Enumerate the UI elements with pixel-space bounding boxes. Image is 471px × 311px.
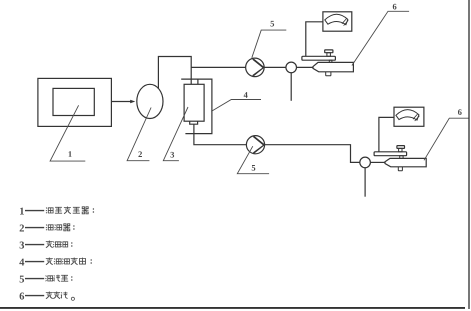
legend text line 6: guang du ji . — [46, 292, 75, 301]
bottom photometer tube 6 — [385, 158, 426, 166]
wire junction to photometer tube — [297, 66, 314, 68]
label digit 6 bottom — [458, 109, 462, 115]
legend dash 5 — [25, 278, 44, 280]
bottom meter box — [394, 107, 424, 126]
legend text line 2: huan chong qi ; — [46, 224, 75, 231]
legend dash 4 — [25, 261, 44, 263]
legend dash 6 — [25, 295, 44, 297]
label digit 6 top — [393, 4, 397, 10]
legend dash 3 — [25, 244, 44, 246]
legend — [19, 208, 24, 300]
buffer ellipse 2 — [137, 84, 163, 118]
bottom knob stem — [399, 148, 402, 151]
top tube bottom tab — [326, 72, 331, 76]
label digit 1 — [69, 151, 72, 157]
bottom connector stub platform-tube — [400, 156, 403, 159]
top knob stem — [327, 53, 331, 57]
wire bottom junction to tube — [370, 161, 385, 163]
bottom meter wire to platform — [379, 117, 394, 151]
bottom meter needle hatches — [413, 114, 419, 121]
label 3 pointer and underline — [163, 107, 188, 161]
filter 3 body — [184, 84, 204, 121]
legend text line 3: guo lv jian ; — [46, 241, 73, 248]
legend text line 5: chou qi beng ; — [45, 275, 72, 282]
arrow line from generator to buffer — [111, 101, 131, 103]
label 1 pointer and underline — [50, 105, 85, 161]
label digit 2 — [138, 151, 142, 157]
wire top pump to junction — [264, 66, 286, 68]
bottom junction stub down — [364, 168, 366, 197]
legend dash 2 — [25, 227, 44, 229]
label 5 top pointer and underline — [252, 30, 286, 58]
label 6 bottom pointer and underline — [424, 118, 469, 160]
legend line 5 digit — [20, 276, 24, 283]
wire from buffer top to filter top — [158, 57, 191, 89]
legend text line 1: you wu fa sheng qi ; — [46, 207, 94, 214]
bottom rule — [0, 307, 465, 309]
bottom meter gauge band — [396, 110, 419, 120]
top meter box — [323, 12, 352, 31]
label 6 top pointer and underline — [352, 11, 409, 65]
bottom pump triangle chords — [253, 136, 264, 153]
wire from filter bottom to bottom pump — [194, 124, 247, 145]
oil mist generator box 1 outer rect — [38, 78, 112, 126]
legend line 3 digit — [20, 242, 24, 249]
top junction circle — [286, 62, 297, 73]
label 5 bottom pointer and underline — [237, 146, 269, 174]
top platform bar — [302, 56, 336, 60]
label 2 pointer and underline — [127, 108, 151, 161]
label digit 4 — [244, 92, 248, 98]
bottom branch wire filter to right — [264, 145, 359, 163]
top pump 5 circle — [246, 58, 265, 77]
top pump triangle chords — [253, 59, 264, 76]
legend line 6 digit — [20, 293, 25, 300]
top connector stub platform-tube — [329, 60, 332, 62]
legend line 4 digit — [19, 259, 24, 266]
top meter gauge band — [325, 14, 348, 24]
label digit 3 — [170, 152, 174, 158]
top knob cap — [325, 50, 333, 53]
arrowhead — [130, 100, 135, 103]
top photometer tube 6 — [313, 62, 353, 71]
oil mist generator box 1 inner rect — [53, 88, 94, 115]
legend dash 1 — [25, 210, 44, 212]
label digit 5 bottom — [252, 165, 256, 171]
legend line 2 digit — [20, 225, 24, 232]
filter clamp 4 — [181, 79, 212, 134]
bottom platform bar — [374, 152, 407, 156]
legend line 1 digit — [20, 208, 24, 215]
top meter needle hatches — [342, 19, 348, 26]
bottom knob cap — [397, 146, 405, 149]
top junction stub down — [290, 73, 292, 101]
filter bottom tab — [190, 121, 198, 124]
bottom pump 5 circle — [246, 136, 264, 154]
bottom tube bottom tab — [398, 167, 402, 171]
label digit 5 top — [271, 21, 275, 27]
right page border line — [468, 0, 470, 309]
legend text line 4: guo lv jian jia ju ; — [46, 258, 92, 265]
label 4 pointer and underline — [211, 100, 261, 112]
wire branch to top pump — [191, 66, 246, 68]
bottom junction circle — [360, 157, 371, 168]
filter top tab — [197, 79, 199, 84]
top meter wire to platform — [306, 22, 323, 57]
